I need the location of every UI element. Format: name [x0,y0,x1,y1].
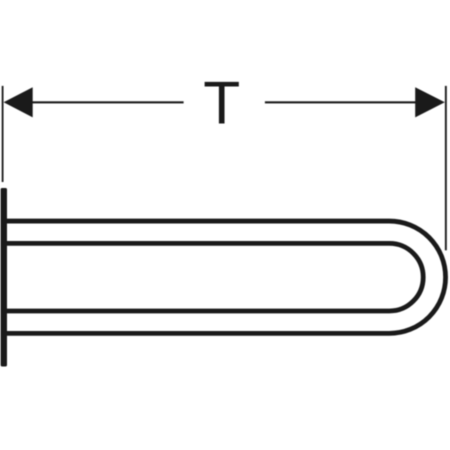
arrowhead right [415,87,445,117]
grab bar tube outer contour [7,221,446,333]
extension line right [445,86,447,250]
wall flange plate [1,188,7,367]
extension line left [2,86,4,182]
grab bar tube inner contour [7,243,424,311]
arrowhead left [4,87,33,117]
dimension line right segment [265,101,417,103]
svg-text:T: T [203,69,240,137]
dimension line left segment [31,101,184,103]
